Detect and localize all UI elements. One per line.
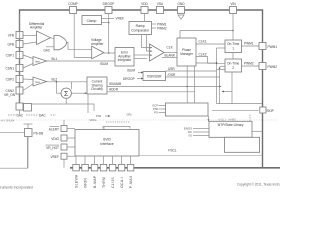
svg-text:PWM1: PWM1 [244, 42, 254, 46]
svg-text:GFB: GFB [7, 43, 14, 47]
svg-text:Circuitry: Circuitry [91, 87, 103, 91]
svg-text:OSR/USR: OSR/USR [147, 75, 162, 79]
svg-text:I2C: I2C [188, 130, 192, 134]
svg-text:1: 1 [232, 47, 234, 51]
svg-text:BL2: BL2 [52, 78, 58, 82]
svg-text:SKIP: SKIP [267, 109, 274, 113]
svg-text:ADDR: ADDR [109, 88, 119, 92]
svg-text:Interface: Interface [100, 142, 113, 146]
svg-text:DAC: DAC [17, 114, 24, 118]
svg-text:Ramp: Ramp [136, 24, 145, 28]
svg-text:VREF: VREF [50, 155, 59, 159]
svg-text:On-Time: On-Time [227, 62, 240, 66]
svg-text:PWM2: PWM2 [244, 62, 254, 66]
svg-text:Isen: Isen [35, 80, 41, 84]
svg-text:CLK1: CLK1 [199, 40, 207, 44]
svg-text:VSA: VSA [157, 2, 164, 6]
svg-text:OCP: OCP [152, 104, 158, 108]
svg-text:ALERT: ALERT [49, 127, 59, 131]
svg-text:COMP: COMP [68, 2, 78, 6]
svg-text:VR_HOT: VR_HOT [46, 146, 59, 150]
svg-text:VIN: VIN [230, 2, 236, 6]
svg-text:EN/SS: EN/SS [184, 127, 192, 131]
svg-text:2: 2 [232, 66, 234, 70]
svg-text:VDIO: VDIO [51, 137, 59, 141]
svg-text:GPx: GPx [127, 113, 133, 117]
svg-text:I/O: I/O [188, 134, 192, 138]
svg-text:Comparator: Comparator [131, 29, 150, 33]
svg-text:OCA-I: OCA-I [120, 177, 124, 188]
svg-text:CL/JS: CL/JS [111, 177, 115, 188]
svg-text:BLANK: BLANK [165, 54, 176, 58]
svg-text:PS0: PS0 [96, 114, 102, 118]
svg-text:SVID: SVID [103, 138, 111, 142]
svg-text:CLK: CLK [167, 46, 174, 50]
svg-text:DAC: DAC [44, 49, 51, 53]
svg-text:DAC: DAC [39, 114, 46, 118]
svg-text:Copyright © 2011, Texas Instru: Copyright © 2011, Texas Instruments [237, 183, 280, 187]
svg-text:Clamp: Clamp [87, 19, 97, 23]
svg-text:PS0: PS0 [153, 107, 159, 111]
svg-text:PG: PG [154, 111, 158, 115]
svg-text:/OSR: /OSR [168, 73, 176, 77]
svg-text:Isen: Isen [35, 59, 41, 63]
svg-text:VDD: VDD [141, 2, 148, 6]
svg-text:BL1: BL1 [52, 57, 58, 61]
svg-text:PWM1: PWM1 [268, 45, 278, 49]
svg-text:FSCL: FSCL [168, 149, 176, 153]
svg-text:CSP2: CSP2 [6, 78, 15, 82]
svg-text:Integrator: Integrator [118, 58, 133, 62]
svg-text:Amplifier: Amplifier [91, 42, 104, 46]
svg-text:IMON: IMON [83, 178, 87, 188]
svg-text:A+V SNUB4: A+V SNUB4 [1, 119, 15, 122]
svg-text:. ·V-Q(.) · I+AME: . ·V-Q(.) · I+AME [216, 118, 236, 122]
svg-text:ISUMAB: ISUMAB [109, 82, 121, 86]
svg-text:Amplifier: Amplifier [30, 26, 43, 30]
svg-text:CSP1: CSP1 [6, 54, 15, 58]
svg-text:MTP/State Library: MTP/State Library [218, 123, 244, 127]
svg-text:B-MAP: B-MAP [93, 175, 97, 188]
svg-text:Instruments Incorporated: Instruments Incorporated [0, 186, 33, 190]
svg-text:VCCs: VCCs [90, 118, 98, 122]
svg-text:ISUM: ISUM [100, 62, 108, 66]
svg-text:SLEWA: SLEWA [74, 174, 78, 188]
svg-text:GND: GND [177, 2, 185, 6]
svg-text:VFB: VFB [8, 34, 14, 38]
svg-text:On-Time: On-Time [227, 42, 240, 46]
svg-text:DROOP: DROOP [103, 2, 115, 6]
svg-text:VR_ON: VR_ON [4, 93, 16, 97]
svg-text:Manager: Manager [180, 52, 194, 56]
svg-text:CSN1: CSN1 [5, 67, 14, 71]
svg-text:THRM: THRM [102, 177, 106, 188]
svg-text:PS-DB: PS-DB [34, 132, 44, 136]
svg-text:Σ: Σ [64, 91, 69, 98]
svg-text:DROOP: DROOP [123, 77, 135, 81]
svg-text:CLK2: CLK2 [199, 53, 207, 57]
svg-text:PWM2: PWM2 [157, 27, 167, 31]
svg-text:VREF: VREF [116, 17, 125, 21]
svg-text:USR: USR [168, 67, 175, 71]
svg-text:PWM2: PWM2 [268, 65, 278, 69]
svg-text:P-MAX: P-MAX [129, 175, 133, 188]
svg-text:ISUM: ISUM [127, 69, 135, 73]
